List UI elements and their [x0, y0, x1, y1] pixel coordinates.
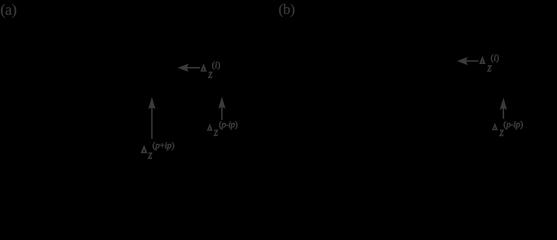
- wire: panel b horizontal arrow shaft: [466, 60, 479, 62]
- node: panel a left vertical arrowhead pointing up: [148, 97, 155, 110]
- wire: panel a right vertical arrow shaft: [221, 104, 223, 120]
- node: panel a right label Delta (drawn hollow triangle): [207, 124, 213, 131]
- node: panel a left label superscript (p+ip): [153, 142, 174, 150]
- node: panel b label Delta (drawn hollow triangle): [492, 123, 498, 131]
- node: panel a right vertical arrowhead pointing up: [218, 97, 225, 110]
- wire: panel b vertical arrow shaft: [502, 105, 504, 119]
- wire: panel a left vertical arrow shaft: [151, 104, 153, 139]
- panel label (a): [1, 4, 16, 18]
- node: panel a delay label superscript (i): [212, 62, 220, 70]
- node: panel a right label superscript (p-ip): [219, 121, 237, 129]
- wire: panel a horizontal arrow shaft: [187, 67, 201, 69]
- node: panel a horizontal arrowhead pointing left: [178, 64, 189, 72]
- node: panel b delay label subscript z: [487, 65, 491, 71]
- node: panel a left label subscript z: [148, 153, 152, 159]
- node: panel a right label subscript z: [214, 130, 218, 136]
- node: panel a left label Delta (drawn hollow triangle): [141, 145, 148, 154]
- node: panel b label subscript z: [499, 130, 503, 136]
- node: panel a delay label subscript z: [208, 72, 212, 78]
- node: panel b horizontal arrowhead pointing left: [457, 57, 468, 65]
- panel label (b): [279, 4, 294, 17]
- node: panel b vertical arrowhead pointing up: [500, 98, 507, 111]
- node: panel b label superscript (p-ip): [504, 121, 523, 129]
- node: panel a delay label Delta (drawn hollow triangle): [200, 63, 206, 71]
- node: panel b delay label Delta (drawn hollow triangle): [479, 56, 485, 64]
- node: panel b delay label superscript (i): [491, 54, 499, 62]
